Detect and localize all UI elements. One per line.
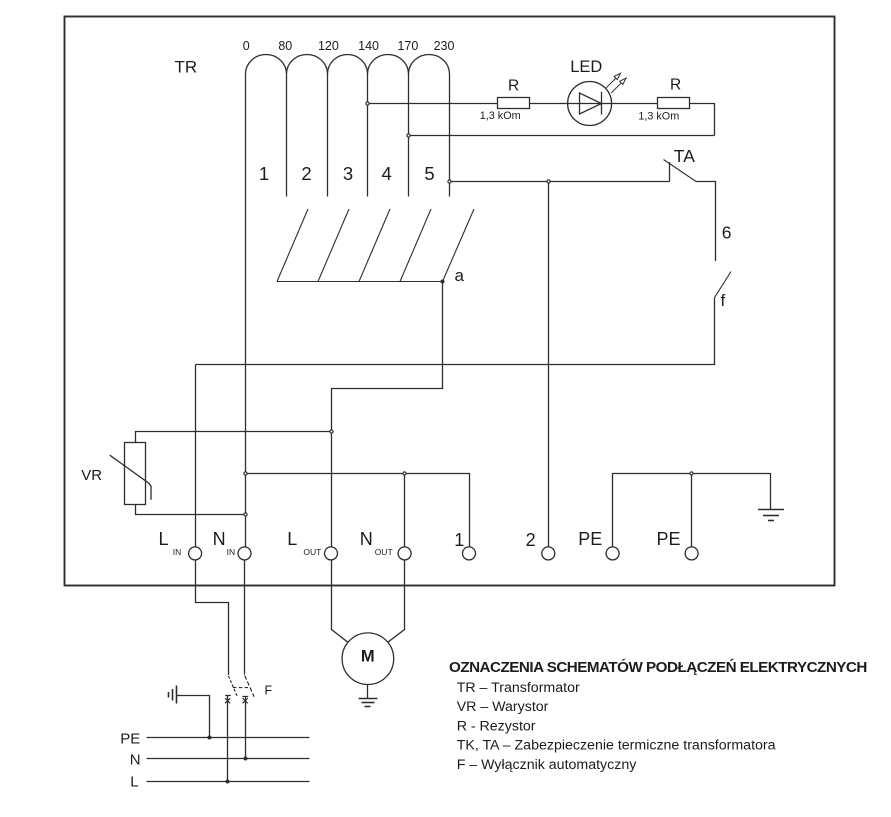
svg-text:2: 2	[526, 530, 536, 550]
chassis ground bar 1	[758, 509, 784, 511]
wiper bar	[277, 281, 443, 283]
wiper contact slash 4	[400, 209, 431, 282]
node a junction dot	[441, 280, 445, 284]
junction tap230 to TA branch	[448, 180, 451, 183]
earth symbol bar medium	[172, 689, 174, 701]
svg-text:OUT: OUT	[303, 547, 321, 557]
wire LED branch lower return run	[410, 135, 714, 137]
motor earth bar 3	[365, 706, 371, 708]
svg-text:0: 0	[243, 39, 250, 53]
svg-text:N: N	[213, 529, 226, 549]
junction PE2 at PE bus	[690, 472, 693, 475]
svg-text:4: 4	[382, 163, 392, 184]
wire VR bottom to N IN line	[136, 505, 246, 515]
PE supply line	[147, 737, 310, 739]
chassis ground bar 2	[763, 515, 779, 517]
wire tap 230 vertical	[449, 74, 451, 197]
wire tap 0 vertical down to N IN terminal	[245, 74, 247, 547]
TA switch fixed contact tick	[669, 162, 671, 182]
wire PE1 up and over to chassis ground	[613, 474, 771, 548]
varistor VR strike line	[110, 455, 151, 500]
wire motor to earth	[367, 685, 369, 699]
junction N OUT at neutral bus	[403, 472, 406, 475]
svg-text:L: L	[287, 529, 297, 549]
main enclosure box	[65, 17, 835, 586]
terminal 2 circle	[542, 547, 555, 560]
terminal L IN circle	[189, 547, 202, 560]
chassis ground bar 3	[768, 520, 774, 522]
wire tap 140 vertical	[367, 74, 369, 197]
svg-text:L: L	[130, 774, 138, 791]
svg-text:N: N	[360, 529, 373, 549]
breaker F pole 1 blade	[229, 676, 238, 696]
resistor R2	[658, 98, 690, 109]
breaker pole 2 lower wire to N	[245, 696, 247, 759]
terminal PE1 circle	[606, 547, 619, 560]
wire N OUT vertical	[404, 475, 406, 547]
L supply line	[147, 781, 310, 783]
svg-text:80: 80	[278, 39, 292, 53]
wire PE2 vertical	[691, 475, 693, 547]
wire f down and across to L IN	[196, 297, 715, 364]
svg-text:a: a	[455, 266, 465, 285]
svg-text:R - Rezystor: R - Rezystor	[457, 718, 536, 734]
LED D1 arrow 2	[611, 78, 626, 93]
wire terminal 2 vertical	[548, 183, 550, 547]
junction breaker pole2 at N line	[244, 757, 248, 761]
breaker pole 1 contact cross	[225, 696, 231, 704]
wire L IN vertical	[195, 365, 197, 548]
breaker pole 2 contact cross	[242, 697, 248, 704]
terminal 1 circle	[463, 547, 476, 560]
wire N OUT down to motor	[388, 560, 405, 643]
svg-text:1: 1	[259, 163, 269, 184]
breaker F linkage dashed	[233, 687, 250, 689]
svg-text:F – Wyłącznik automatyczny: F – Wyłącznik automatyczny	[457, 757, 638, 773]
earth symbol bar long	[176, 686, 178, 704]
LED D1 arrow 1	[606, 73, 621, 88]
junction N IN to neutral bus	[244, 472, 247, 475]
junction node 2 branch	[547, 180, 550, 183]
transformer TR winding humps	[246, 55, 450, 75]
switch f blade	[715, 272, 731, 298]
earth symbol bar short	[168, 692, 170, 698]
svg-text:R: R	[670, 77, 681, 94]
svg-text:PE: PE	[578, 529, 602, 549]
svg-text:170: 170	[397, 39, 418, 53]
svg-text:3: 3	[343, 163, 353, 184]
motor earth bar 1	[359, 698, 378, 700]
wire tap 80 vertical	[286, 74, 288, 197]
wire neutral bus to terminal 1	[247, 474, 469, 548]
svg-text:VR: VR	[81, 467, 102, 484]
svg-text:1: 1	[454, 530, 464, 550]
svg-text:VR – Warystor: VR – Warystor	[457, 699, 549, 715]
svg-text:f: f	[721, 291, 726, 310]
svg-text:N: N	[130, 752, 141, 769]
LED D1 circle	[568, 82, 612, 126]
LED D1 cathode bar	[601, 92, 603, 115]
breaker F pole 2 blade	[245, 676, 254, 697]
TA switch blade	[664, 160, 697, 182]
svg-text:6: 6	[722, 223, 732, 243]
motor earth bar 2	[362, 702, 375, 704]
svg-text:M: M	[361, 647, 375, 665]
wiper contact slash 2	[318, 209, 349, 282]
wire TA branch horizontal	[451, 181, 669, 183]
svg-text:L: L	[159, 529, 169, 549]
wire L OUT down to motor	[332, 560, 348, 643]
terminal L OUT circle	[325, 547, 338, 560]
svg-text:R: R	[508, 78, 519, 95]
svg-text:120: 120	[318, 39, 339, 53]
wire earth to PE line	[177, 696, 210, 738]
svg-text:OZNACZENIA SCHEMATÓW PODŁĄCZEŃ: OZNACZENIA SCHEMATÓW PODŁĄCZEŃ ELEKTRYCZ…	[449, 658, 867, 676]
svg-text:140: 140	[358, 39, 379, 53]
svg-text:LED: LED	[570, 58, 602, 76]
svg-text:1,3 kOm: 1,3 kOm	[480, 110, 521, 122]
svg-text:IN: IN	[173, 547, 182, 557]
svg-text:2: 2	[301, 163, 311, 184]
svg-text:TA: TA	[674, 146, 695, 166]
wiper contact slash 3	[359, 209, 390, 282]
terminal PE2 circle	[685, 547, 698, 560]
wiper contact slash 1	[277, 209, 308, 282]
resistor R1	[498, 98, 530, 109]
svg-text:230: 230	[434, 39, 455, 53]
junction VR top at L OUT line	[330, 430, 333, 433]
svg-text:PE: PE	[657, 529, 681, 549]
motor M circle	[342, 633, 394, 685]
svg-text:PE: PE	[120, 731, 140, 748]
wire LED branch upper run	[369, 104, 714, 136]
svg-text:5: 5	[424, 163, 434, 184]
wire from node a down and left to L OUT line	[332, 282, 443, 548]
junction breaker pole1 at L line	[226, 780, 230, 784]
svg-text:IN: IN	[227, 547, 236, 557]
wiper contact slash 5	[443, 209, 475, 282]
junction VR bottom at N IN line	[244, 513, 247, 516]
terminal N OUT circle	[398, 547, 411, 560]
svg-text:F: F	[265, 684, 273, 698]
svg-text:TR: TR	[175, 58, 198, 77]
wire TA to node 6	[696, 182, 716, 262]
junction tap170 to LED return	[407, 134, 410, 137]
svg-text:OUT: OUT	[375, 547, 393, 557]
svg-text:1,3 kOm: 1,3 kOm	[638, 110, 679, 122]
terminal N IN circle	[238, 547, 251, 560]
wire N IN below box	[244, 560, 246, 675]
breaker pole 1 lower wire to L	[227, 696, 229, 782]
junction earth at PE line	[208, 736, 212, 740]
junction tap140 to LED branch	[366, 102, 369, 105]
wire tap 170 vertical	[408, 74, 410, 197]
N supply line	[147, 758, 310, 760]
wire tap 120 vertical	[327, 74, 329, 197]
wire L IN below box with jog to breaker	[196, 560, 229, 675]
svg-text:TK, TA – Zabezpieczenie termic: TK, TA – Zabezpieczenie termiczne transf…	[457, 738, 776, 754]
wire VR top to L OUT line	[136, 432, 332, 443]
LED D1 triangle	[580, 93, 602, 114]
svg-text:TR – Transformator: TR – Transformator	[457, 680, 580, 696]
varistor VR body	[125, 443, 146, 505]
